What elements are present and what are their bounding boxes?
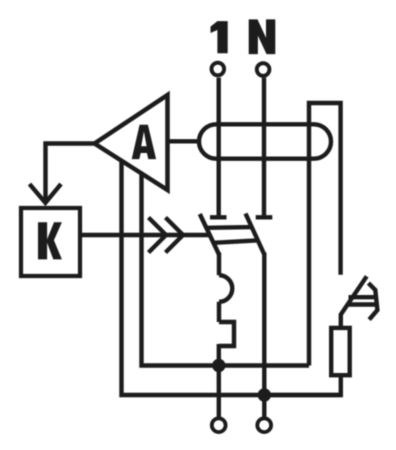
output terminal circle neutral	[257, 418, 271, 432]
wire amplifier supply 1 (from triangle to bottom loop)	[122, 161, 341, 395]
fixed contact T-bar pole N	[256, 215, 273, 219]
wire amplifier output to toroid	[168, 139, 198, 143]
test resistor R	[331, 328, 350, 375]
chevron 2 (mechanical linkage)	[166, 218, 184, 253]
magnetic trip coil (semicircle)	[219, 275, 232, 302]
arrowhead into relay K	[30, 184, 62, 203]
wire coil to thermal step	[217, 302, 221, 322]
test circuit bracket top	[309, 103, 341, 366]
op-amp A (amplifier triangle)	[95, 95, 168, 190]
wire neutral node to output terminal	[262, 395, 266, 417]
wire pole 1 lever to trip coil	[217, 253, 221, 276]
label A (amplifier)	[132, 125, 156, 159]
junction node phase	[212, 359, 225, 372]
test button actuator stroke upper	[368, 283, 377, 320]
chevron 1 (mechanical linkage)	[149, 218, 167, 253]
terminal N circle	[257, 63, 270, 76]
wire relay K output to switch	[82, 233, 210, 237]
linkage rung lower	[214, 240, 260, 243]
fixed contact T-bar pole 1	[210, 215, 227, 219]
label 1 (terminal 1)	[211, 21, 228, 53]
wire amplifier supply 2 (from triangle to bottom loop)	[142, 174, 310, 366]
test button actuator bar lower	[348, 302, 378, 306]
test button actuator bar upper	[349, 295, 377, 299]
wire phase from terminal 1 down to fixed contact	[216, 78, 220, 216]
current transformer toroid W1	[199, 124, 331, 158]
linkage rung upper	[207, 225, 253, 230]
test button contact lever	[341, 276, 367, 328]
relay K box	[21, 208, 80, 276]
switch lever pole N	[246, 214, 265, 255]
junction node neutral	[258, 388, 271, 401]
wire resistor to neutral node	[264, 375, 341, 395]
output terminal circle phase	[212, 418, 226, 432]
terminal 1 circle	[212, 63, 225, 76]
thermal release step	[219, 322, 234, 346]
wire amplifier apex to left corner	[46, 144, 95, 202]
switch lever pole 1	[200, 214, 219, 255]
label N (terminal N)	[249, 19, 276, 54]
label K (relay)	[38, 222, 62, 259]
wire thermal step to node	[217, 344, 221, 367]
wire neutral from terminal N down to fixed contact	[262, 78, 266, 216]
wire pole N lever down to node	[262, 253, 266, 397]
wire phase node to output terminal	[217, 366, 221, 417]
